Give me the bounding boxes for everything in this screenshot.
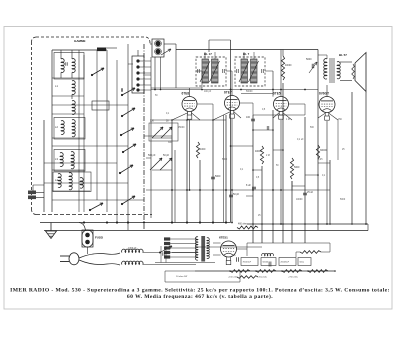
svg-text:5000: 5000 <box>222 159 228 161</box>
svg-text:L4: L4 <box>55 178 58 182</box>
svg-text:460 ohm: 460 ohm <box>238 224 247 226</box>
svg-text:25000: 25000 <box>178 127 185 129</box>
svg-text:50 pF: 50 pF <box>163 154 170 157</box>
svg-text:50: 50 <box>166 121 169 123</box>
svg-text:0,1 uF: 0,1 uF <box>297 139 304 141</box>
svg-text:6V6GT: 6V6GT <box>319 91 329 95</box>
svg-text:6TE8: 6TE8 <box>182 91 190 95</box>
svg-text:6TE51: 6TE51 <box>219 236 228 240</box>
svg-text:0,1: 0,1 <box>240 169 244 171</box>
svg-text:250: 250 <box>338 119 343 121</box>
svg-text:50: 50 <box>155 95 158 97</box>
svg-text:500 pF: 500 pF <box>148 154 156 157</box>
svg-text:5000: 5000 <box>306 58 312 61</box>
svg-text:5000: 5000 <box>340 199 346 201</box>
svg-text:50: 50 <box>233 255 236 257</box>
svg-text:60 W. Media frequenza: 467 kc/: 60 W. Media frequenza: 467 kc/s (v. tabe… <box>127 293 273 300</box>
svg-text:5000: 5000 <box>215 175 221 178</box>
svg-text:50000: 50000 <box>246 91 253 93</box>
svg-text:0,5: 0,5 <box>262 109 266 111</box>
svg-text:+150 volts.: +150 volts. <box>228 276 239 279</box>
svg-text:30000: 30000 <box>320 149 327 152</box>
svg-text:50: 50 <box>276 165 279 167</box>
svg-text:500u: 500u <box>300 262 304 264</box>
svg-text:+750 volts.: +750 volts. <box>288 276 299 279</box>
svg-text:10000: 10000 <box>296 199 303 201</box>
svg-text:BL 57: BL 57 <box>339 53 347 57</box>
svg-text:0,25: 0,25 <box>318 159 323 161</box>
svg-text:25: 25 <box>342 149 345 151</box>
svg-text:-Grounds.: -Grounds. <box>258 276 268 279</box>
svg-text:10 ohm 1W: 10 ohm 1W <box>176 276 188 278</box>
svg-text:8 uF: 8 uF <box>246 184 251 187</box>
svg-text:2 M: 2 M <box>266 155 270 157</box>
svg-text:L1: L1 <box>55 84 58 88</box>
svg-text:5000: 5000 <box>294 166 300 169</box>
svg-text:2000/5uF: 2000/5uF <box>281 262 290 264</box>
svg-text:25: 25 <box>258 215 261 217</box>
svg-text:40000: 40000 <box>285 65 292 67</box>
svg-text:100: 100 <box>246 116 251 119</box>
svg-text:25 uF: 25 uF <box>307 191 314 194</box>
svg-text:50 pF: 50 pF <box>233 193 240 196</box>
svg-text:7000/1uF: 7000/1uF <box>243 262 252 264</box>
svg-text:0,5: 0,5 <box>256 177 260 179</box>
svg-text:1000: 1000 <box>200 148 206 151</box>
svg-text:L2: L2 <box>55 125 58 129</box>
svg-text:500: 500 <box>310 127 315 129</box>
svg-text:6TE5: 6TE5 <box>273 91 281 95</box>
svg-text:500: 500 <box>150 121 155 123</box>
svg-text:IMER RADIO - Mod. 530 - Supere: IMER RADIO - Mod. 530 - Supereterodina a… <box>10 287 390 293</box>
svg-text:6TE7: 6TE7 <box>224 90 232 94</box>
svg-text:FUSO: FUSO <box>95 236 104 240</box>
svg-text:L3: L3 <box>55 157 58 161</box>
svg-text:1700 pF: 1700 pF <box>128 248 137 250</box>
svg-text:40000: 40000 <box>255 150 262 153</box>
svg-text:BL 7: BL 7 <box>243 52 250 56</box>
svg-text:50000: 50000 <box>263 262 269 264</box>
svg-text:0,1: 0,1 <box>322 175 326 177</box>
svg-text:0,1: 0,1 <box>166 113 170 115</box>
svg-text:100 pF: 100 pF <box>204 91 212 93</box>
svg-text:1 M: 1 M <box>286 119 290 121</box>
svg-text:GAMME: GAMME <box>74 39 86 43</box>
svg-text:BL 17: BL 17 <box>204 52 212 56</box>
